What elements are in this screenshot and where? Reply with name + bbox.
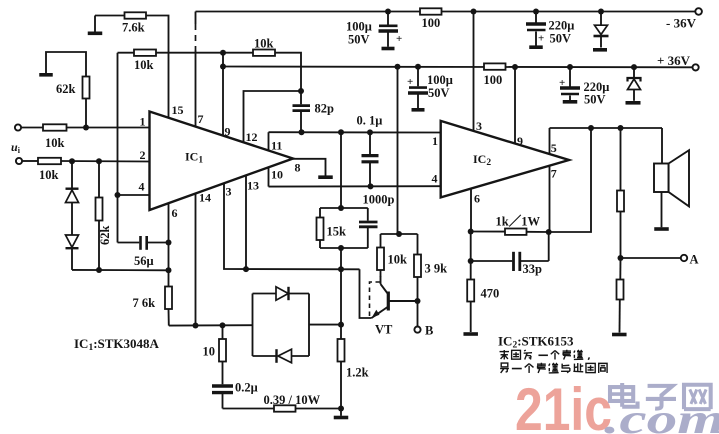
- svg-text:10k: 10k: [388, 253, 408, 267]
- svg-text:0. 1μ: 0. 1μ: [357, 114, 383, 128]
- label IC2 type: [498, 334, 574, 351]
- ground at 7.6k: [88, 16, 103, 34]
- wire: pin7 vertical from -36V: [195, 12, 197, 127]
- svg-text:100μ: 100μ: [346, 20, 372, 34]
- svg-text:1: 1: [432, 134, 438, 148]
- svg-text:3: 3: [226, 185, 232, 199]
- pin 11 label: [271, 139, 282, 153]
- dashed coupling line: [370, 282, 381, 316]
- wire: VT bias vertical from +36V: [398, 67, 400, 234]
- svg-text:50V: 50V: [584, 93, 606, 107]
- wire: pin14 vertical: [195, 194, 197, 326]
- svg-text:14: 14: [199, 191, 211, 205]
- terminal +36V: [693, 64, 699, 70]
- wire: bias net y=325.5: [169, 324, 253, 326]
- wire: diode box bottom left: [253, 355, 278, 357]
- wire: 7.6k to pin15: [146, 16, 169, 119]
- node: junction cap bottom: [368, 183, 374, 189]
- watermark dian-zi-wang: [610, 383, 711, 409]
- capacitor 0.2u: [212, 362, 233, 409]
- label 62k (rotated): [98, 226, 112, 246]
- ground bar D3: [593, 48, 607, 52]
- pin 6 label: [172, 206, 178, 220]
- wire: pin7 stub: [549, 166, 551, 232]
- ground at pin8: [318, 175, 333, 179]
- node: +36V junction at zener: [631, 64, 637, 70]
- svg-text:33p: 33p: [523, 262, 543, 276]
- wire: input2 to pin2: [61, 160, 150, 163]
- label 7.6k: [122, 21, 145, 35]
- zener VD (+36V): [628, 67, 641, 101]
- svg-text:9: 9: [225, 125, 231, 139]
- node: +36V junction at pin9: [512, 64, 518, 70]
- node: junction pin13: [243, 266, 249, 272]
- label 10k (VT): [388, 253, 408, 267]
- node: junction base/3.9k: [415, 298, 421, 304]
- label 0.2u: [235, 381, 258, 395]
- wire: bottom net: [223, 408, 275, 410]
- wire: to terminal A: [621, 257, 681, 259]
- capacitor 33p: [471, 232, 549, 272]
- svg-text:8: 8: [295, 161, 301, 175]
- wire: input1 to 10k: [21, 127, 43, 129]
- op-amp IC1: [150, 112, 294, 211]
- svg-text:+: +: [396, 33, 402, 45]
- label +36V: [657, 53, 691, 68]
- ground bar 220u+: [563, 100, 578, 104]
- node: junction R col: [618, 125, 624, 131]
- resistor 10k (feedback a): [134, 50, 156, 56]
- wire: input2 to 10k: [22, 160, 38, 162]
- polarity + (220u -36V): [538, 33, 544, 45]
- wire: clamp bottom net: [72, 269, 169, 271]
- label 7.6k (pin6): [133, 296, 156, 310]
- wire: diode box left edge: [252, 294, 254, 357]
- node: junction box bottom: [338, 245, 344, 251]
- node: junction box top: [338, 205, 344, 211]
- svg-text:10: 10: [271, 168, 283, 182]
- svg-text:4: 4: [432, 172, 438, 186]
- svg-text:+ 36V: + 36V: [657, 53, 691, 68]
- capacitor 82p: [293, 91, 311, 132]
- wire: pin9 vertical (IC2): [514, 67, 516, 144]
- label B: [425, 324, 433, 338]
- node: junction 62k2 top: [96, 158, 102, 164]
- wire: 7.6k top-left net: [95, 15, 125, 17]
- wire: to terminal B: [417, 301, 419, 326]
- wire: 15k branch vertical: [340, 132, 342, 208]
- svg-text:+: +: [538, 33, 544, 45]
- ground bar 220u: [529, 45, 543, 49]
- resistor 1k/1W: [505, 229, 527, 235]
- pin 4 label: [139, 180, 145, 194]
- resistor 10: [219, 325, 226, 361]
- svg-text:82p: 82p: [315, 102, 335, 116]
- svg-text:IC1:STK3048A: IC1:STK3048A: [74, 336, 160, 353]
- wire: speaker bottom lead: [661, 192, 663, 227]
- svg-text:12: 12: [246, 130, 258, 144]
- wire: output net y=128: [550, 127, 663, 129]
- label 220u 50V (-36V): [549, 19, 575, 46]
- node: -36V junction at 100u cap: [385, 9, 391, 15]
- terminal B: [414, 327, 420, 333]
- wire: feedback right to 82p node: [275, 53, 301, 91]
- svg-text:+: +: [407, 76, 413, 88]
- label A: [690, 253, 699, 267]
- wire: pin6 vertical: [168, 203, 170, 286]
- label VT: [375, 323, 393, 337]
- resistor 470: [467, 261, 474, 332]
- resistor 10k (input 2): [38, 158, 61, 164]
- wire: NFB line: [549, 128, 591, 232]
- svg-text:0.39 / 10W: 0.39 / 10W: [264, 393, 321, 407]
- wire: pin8 to ground: [293, 159, 326, 176]
- ground at 0.39/1.2k: [334, 409, 349, 418]
- svg-text:1000p: 1000p: [363, 193, 395, 207]
- pin 4 label (IC2): [432, 172, 438, 186]
- node: junction +36V tap: [0, 0, 1, 1]
- node: junction pin7/1k: [546, 229, 552, 235]
- svg-text:+: +: [559, 77, 565, 89]
- wire: feedback mid: [156, 52, 253, 54]
- node: -36V junction at 220u cap: [533, 9, 539, 15]
- wire: box top rail: [320, 207, 368, 209]
- node: junction pin9/feedback: [220, 50, 226, 56]
- resistor 62k (top-left): [46, 52, 90, 128]
- wire: diode box right lead: [309, 324, 341, 326]
- pin 15 label: [172, 103, 184, 117]
- svg-text:56μ: 56μ: [134, 254, 154, 268]
- wire: -36V rail: [196, 11, 696, 13]
- svg-text:62k: 62k: [98, 226, 112, 246]
- svg-text:62k: 62k: [56, 82, 76, 96]
- node: junction pin4: [115, 192, 121, 198]
- wire: pin3 vertical from -36V: [473, 12, 475, 131]
- wire: VT emitter feed: [360, 269, 372, 318]
- pin 8 label: [295, 161, 301, 175]
- svg-text:IC2:STK6153: IC2:STK6153: [498, 334, 574, 351]
- watermark 21ic: [515, 376, 612, 434]
- resistor 100 (-36V): [420, 8, 442, 14]
- svg-text:1k／1W: 1k／1W: [496, 214, 541, 229]
- pin 13 label: [247, 179, 259, 193]
- svg-text:7: 7: [551, 167, 557, 181]
- svg-text:100: 100: [422, 16, 441, 30]
- svg-text:B: B: [425, 324, 433, 338]
- label note line1 (CJK: this fig is one channel,): [500, 350, 590, 360]
- svg-text:4: 4: [139, 180, 145, 194]
- label 0.39/10W: [264, 393, 321, 407]
- label 10k (feedback b): [254, 37, 274, 51]
- svg-text:10: 10: [203, 345, 216, 359]
- svg-text:100: 100: [484, 73, 503, 87]
- svg-text:15k: 15k: [327, 225, 347, 239]
- node: junction 82p top: [298, 88, 304, 94]
- label 1000p: [363, 193, 395, 207]
- svg-text:50V: 50V: [428, 86, 450, 100]
- label IC1: [185, 150, 203, 166]
- node: junction 56u right: [166, 240, 172, 246]
- resistor 3.9k: [414, 234, 421, 301]
- svg-text:11: 11: [271, 139, 282, 153]
- svg-text:15: 15: [172, 103, 184, 117]
- ground at speaker: [654, 227, 669, 231]
- wire: diode box top right: [289, 293, 310, 295]
- pin 7 label: [198, 112, 204, 126]
- svg-text:.com: .com: [604, 397, 719, 434]
- ground bar zener: [626, 101, 641, 105]
- wire: pin6 stub: [470, 189, 472, 232]
- label 220u 50V (+36V): [584, 80, 610, 107]
- wire: speaker top lead: [661, 128, 663, 164]
- capacitor 0.1u/1000p: [362, 132, 379, 186]
- capacitor 56u: [118, 236, 169, 250]
- svg-text:A: A: [690, 253, 699, 267]
- wire: diode box bottom right: [292, 355, 310, 357]
- svg-text:6: 6: [172, 206, 178, 220]
- pin 2 label: [140, 148, 146, 162]
- label 10: [203, 345, 216, 359]
- node: junction 62k2 bottom: [96, 267, 102, 273]
- svg-text:6: 6: [474, 192, 480, 206]
- svg-text:9: 9: [517, 134, 523, 148]
- node: -36V junction at diode: [598, 9, 604, 15]
- label IC2: [473, 152, 491, 168]
- svg-text:13: 13: [247, 179, 259, 193]
- node: junction pin14 bottom: [193, 323, 199, 329]
- label 62k: [56, 82, 76, 96]
- label 3.9k: [425, 262, 448, 276]
- label 33p: [523, 262, 543, 276]
- label 100u 50V (+36V): [427, 73, 453, 100]
- node: junction 82p bottom: [299, 129, 305, 135]
- terminal input 1: [15, 124, 21, 130]
- svg-text:3 9k: 3 9k: [425, 262, 448, 276]
- wire: down to 1.2k node: [340, 269, 342, 324]
- polarity + (100u -36V): [396, 33, 402, 45]
- wire: pin5 stub: [549, 128, 551, 155]
- wire: 1k right: [527, 231, 549, 233]
- pin 1 label: [140, 115, 146, 129]
- label 56u: [134, 254, 154, 268]
- node: junction 15k branch: [338, 129, 344, 135]
- label 10k (input2): [39, 168, 59, 182]
- node: junction 470 top: [468, 258, 474, 264]
- node: -36V junction at pin3 drop: [471, 9, 477, 15]
- ground at 62k: [39, 73, 53, 77]
- svg-text:470: 470: [481, 287, 500, 301]
- svg-text:1.2k: 1.2k: [346, 366, 369, 380]
- wire: pin12 net: [244, 91, 302, 142]
- diode D-top (pointing right): [276, 287, 289, 300]
- resistor 100 (+36V): [484, 63, 506, 69]
- svg-text:7: 7: [198, 112, 204, 126]
- wire: box bottom rail: [320, 247, 368, 249]
- node: junction 62k bottom: [83, 125, 89, 131]
- label 82p: [315, 102, 335, 116]
- wire: input1 to pin1: [67, 127, 150, 129]
- wire: diode box top left: [253, 293, 277, 295]
- svg-text:100μ: 100μ: [427, 73, 453, 87]
- wire: pin4 of IC1: [118, 194, 150, 196]
- node: +36V junction at VT bias drop: [395, 64, 401, 70]
- node: junction gnd: [338, 406, 344, 412]
- diode D-bottom (pointing left): [277, 349, 292, 363]
- label 100 (+36V): [484, 73, 503, 87]
- resistor R-out-b: [617, 258, 624, 333]
- terminal -36V: [695, 8, 702, 15]
- svg-text:10k: 10k: [39, 168, 59, 182]
- pin 9 label: [225, 125, 231, 139]
- transistor VT: [372, 276, 418, 318]
- node: junction 0.1u cap top: [367, 129, 373, 135]
- pin 6 label (IC2): [474, 192, 480, 206]
- label 470: [481, 287, 500, 301]
- pin 5 label (IC2): [551, 141, 557, 155]
- speaker BL: [654, 150, 689, 206]
- resistor 10k (VT): [377, 234, 384, 277]
- svg-text:220μ: 220μ: [549, 19, 575, 33]
- node: junction 10k/3.9k top: [396, 231, 402, 237]
- label 0.1u: [357, 114, 383, 128]
- ground at R-out-b: [612, 333, 627, 337]
- pin 1 label (IC2): [432, 134, 438, 148]
- capacitor 100u/50V (+36V): [408, 67, 428, 108]
- label 100 (-36V): [422, 16, 441, 30]
- terminal input 2: [16, 158, 22, 164]
- wire: diode box right edge: [308, 294, 310, 357]
- svg-text:0.2μ: 0.2μ: [235, 381, 258, 395]
- svg-text:50V: 50V: [550, 32, 572, 46]
- pin 9 label (IC2): [517, 134, 523, 148]
- wire: pin13 stub: [245, 175, 247, 269]
- svg-text:10k: 10k: [134, 58, 154, 72]
- pin 14 label: [199, 191, 211, 205]
- wire: pin3 net y=269: [224, 183, 360, 269]
- wire: 0.39 to gnd node: [296, 408, 342, 410]
- ground bar 100u: [382, 47, 395, 51]
- wire: pin11 stub: [268, 132, 270, 150]
- wire: 7.6k to y325: [168, 309, 170, 326]
- capacitor 220u/50V (+36V): [560, 67, 580, 100]
- diode D1 (clamp up): [66, 161, 79, 235]
- resistor 7.6k (pin6): [165, 287, 172, 310]
- node: +36V junction left end: [220, 64, 226, 70]
- node: junction 10ohm top: [220, 322, 226, 328]
- label -36V: [666, 16, 697, 31]
- node: +36V junction at 220u cap: [567, 64, 573, 70]
- ground bar 100u+: [412, 108, 425, 112]
- node: junction 1k left: [468, 229, 474, 235]
- wire: 1k left: [471, 231, 505, 233]
- node: junction 15k/VT: [338, 266, 344, 272]
- label IC1 type: [74, 336, 160, 353]
- op-amp IC2: [441, 121, 569, 197]
- node: junction 1.2k top: [338, 322, 344, 328]
- svg-text:2: 2: [140, 148, 146, 162]
- svg-text:ui: ui: [11, 140, 21, 155]
- svg-text:1: 1: [140, 115, 146, 129]
- pin 3 label: [226, 185, 232, 199]
- wire: pin9 vertical (V- supply to IC1): [222, 53, 224, 136]
- polarity + (220u +36V): [559, 77, 565, 89]
- wire: x=117.5 vertical to pin4/56u: [117, 53, 119, 243]
- label 15k: [327, 225, 347, 239]
- wire: feedback line left drop x=117.5: [118, 52, 135, 54]
- resistor 10k (feedback b): [253, 50, 275, 56]
- resistor 1.2k: [338, 325, 345, 409]
- watermark .com: [604, 397, 719, 434]
- label 100u 50V (-36V): [346, 20, 372, 47]
- svg-text:10k: 10k: [254, 37, 274, 51]
- node: +36V junction at 100u cap: [415, 64, 421, 70]
- svg-text:21ic: 21ic: [515, 376, 612, 434]
- node: junction A: [618, 255, 624, 261]
- resistor 7.6k (top): [125, 12, 147, 18]
- label note line2 (CJK: the other channel is identical): [500, 363, 607, 373]
- capacitor 1000p (in box): [359, 208, 378, 248]
- svg-text:5: 5: [551, 141, 557, 155]
- label 10k (feedback a): [134, 58, 154, 72]
- node: junction diodes top: [69, 158, 75, 164]
- pin 12 label: [246, 130, 258, 144]
- svg-text:3: 3: [476, 119, 482, 133]
- svg-text:7 6k: 7 6k: [133, 296, 156, 310]
- resistor 0.39/10W: [274, 405, 296, 411]
- resistor 10k (input 1): [43, 124, 67, 130]
- diode D3 (-36V clamp): [594, 12, 609, 48]
- svg-text:- 36V: - 36V: [666, 16, 697, 31]
- pin 7 label (IC2): [551, 167, 557, 181]
- label u_i: [11, 140, 21, 155]
- pin 10 label: [271, 168, 283, 182]
- svg-text:VT: VT: [375, 323, 393, 337]
- polarity + (100u +36V): [407, 76, 413, 88]
- label 1k/1W: [496, 214, 541, 229]
- label 10k (input1): [45, 136, 65, 150]
- capacitor 220u/50V (-36V): [526, 12, 546, 46]
- ground at 470: [463, 332, 478, 336]
- svg-text:7.6k: 7.6k: [122, 21, 145, 35]
- wire: +36V rail: [223, 66, 692, 69]
- pin 3 label (IC2): [476, 119, 482, 133]
- resistor 15k: [317, 208, 324, 248]
- wire: box to y269: [340, 248, 342, 269]
- resistor 62k (pin2): [96, 161, 103, 270]
- wire: bias top rail: [381, 233, 418, 235]
- node: junction y270 left net: [166, 267, 172, 273]
- wire: output net y=132: [269, 131, 441, 133]
- svg-text:10k: 10k: [45, 136, 65, 150]
- node: junction NFB: [588, 125, 594, 131]
- wire: pin10 stub: [268, 167, 270, 187]
- terminal A: [681, 255, 687, 261]
- resistor R-out-a: [617, 128, 624, 258]
- capacitor 100u/50V (-36V): [379, 12, 399, 47]
- label 1.2k: [346, 366, 369, 380]
- diode D2 (clamp down): [66, 235, 79, 270]
- wire: pin10 net y=186: [269, 185, 441, 187]
- svg-text:50V: 50V: [348, 33, 370, 47]
